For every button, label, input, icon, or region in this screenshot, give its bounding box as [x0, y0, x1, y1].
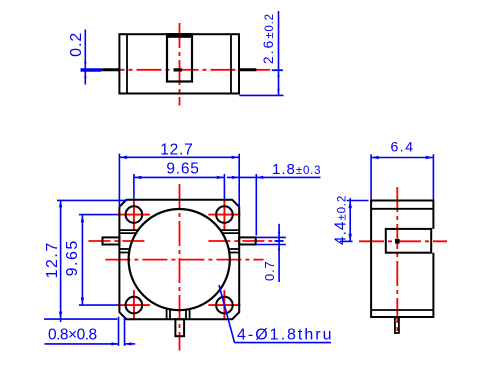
- hole crosshair top-left: [118, 200, 150, 230]
- dimension 0.2 dim line: [84, 30, 86, 85]
- dimension 9.65 left: extension lines: [79, 214, 118, 216]
- dimension 9.65 top: dim line: [134, 176, 225, 178]
- svg-text:6.4: 6.4: [391, 139, 415, 155]
- dimension 12.7 left: dim line: [60, 200, 62, 322]
- right pin (main view): [239, 237, 256, 244]
- dimension 1.8 dim line: [227, 176, 321, 178]
- hole crosshair bottom-right: [208, 290, 240, 320]
- dimension 2.6 tick at pin axis: [272, 69, 283, 71]
- bottom cap line (side view): [371, 309, 433, 311]
- mounting hole bottom-right: [216, 297, 233, 314]
- svg-text:0.7: 0.7: [262, 261, 277, 281]
- dimension 6.4: dim line: [371, 157, 433, 159]
- top cap line (side view): [371, 208, 433, 210]
- body outline (top view): [119, 34, 239, 93]
- mounting hole top-left: [126, 206, 143, 223]
- bottom tab (main view): [175, 319, 184, 336]
- chamfer line right (top view): [230, 34, 232, 93]
- svg-text:9.65: 9.65: [166, 160, 199, 177]
- centerline vertical (top view): [179, 23, 181, 106]
- big circle (main view): [129, 209, 230, 310]
- body outline with chamfered corners (main view): [119, 200, 239, 319]
- svg-text:12.7: 12.7: [160, 141, 193, 158]
- dimension 9.65 left: dim line: [81, 215, 83, 306]
- tab top solid bar: [166, 33, 193, 38]
- dimension 12.7 top: extension lines: [118, 154, 120, 207]
- svg-text:0.8×0.8: 0.8×0.8: [48, 327, 97, 344]
- chamfer line left (top view): [126, 34, 128, 93]
- dimension 0.7: arrows: [278, 232, 280, 238]
- centerline horizontal (side view pin axis): [359, 240, 447, 242]
- left pin (main view): [103, 237, 120, 244]
- dimension 6.4: extension lines: [370, 154, 372, 200]
- hole crosshair top-right: [208, 200, 240, 230]
- svg-text:0.2: 0.2: [68, 32, 85, 57]
- dimension 0.2 arrows: [84, 62, 86, 68]
- hole crosshair bottom-left: [118, 290, 150, 320]
- dimension 2.6 bottom extension: [239, 94, 283, 96]
- dimension 0.7: dim line: [278, 224, 280, 282]
- castellation lines bottom: [167, 309, 190, 320]
- dimension 4.4: extension lines: [347, 200, 369, 202]
- dimension 0.2 extension bar: [81, 68, 102, 71]
- label 0.8x0.8: extension lines: [118, 317, 120, 346]
- mounting hole bottom-left: [126, 297, 143, 314]
- castellation lines right side: [220, 230, 239, 252]
- centerline horizontal (top view pin axis): [100, 69, 271, 71]
- centerline vertical (side view): [396, 187, 398, 335]
- centerline vertical (main view): [179, 184, 181, 351]
- right pin (top view): [239, 68, 256, 71]
- svg-text:12.7: 12.7: [44, 241, 61, 278]
- body outline (side view, right edge interrupted at notch): [371, 201, 433, 318]
- label 4-dia1.8thru: leader: [219, 285, 235, 343]
- centerline horizontal (main view circle axis): [105, 259, 263, 261]
- dimension 4.4: dim line: [349, 198, 351, 242]
- centerline right pin axis: [208, 240, 278, 242]
- dimension 9.65 top: extension lines: [133, 174, 135, 199]
- svg-text:4-Ø1.8thru: 4-Ø1.8thru: [237, 327, 333, 344]
- bottom tab stub (side view): [395, 317, 399, 333]
- dimension 2.6 dim line: [278, 11, 280, 95]
- svg-text:9.65: 9.65: [64, 239, 81, 276]
- label 0.8x0.8: dim/underline: [45, 343, 119, 345]
- dimension 2.6 arrows: [277, 71, 279, 77]
- center mark (side view): [395, 239, 400, 244]
- castellation lines left side: [119, 230, 138, 252]
- pin notch (side view): [386, 229, 431, 253]
- dimension 12.7 top: dim line: [119, 156, 239, 158]
- mounting hole top-right: [216, 206, 233, 223]
- dimension 0.7: extension lines: [256, 236, 286, 238]
- dimension 12.7 left: extension lines: [57, 199, 127, 201]
- tab outline (top view): [167, 34, 192, 81]
- left pin (top view): [102, 68, 120, 71]
- center mark dash (top view): [174, 68, 183, 71]
- centerline left pin axis: [88, 240, 146, 242]
- dimension 1.8 pin: extension line at pin tip: [255, 174, 257, 236]
